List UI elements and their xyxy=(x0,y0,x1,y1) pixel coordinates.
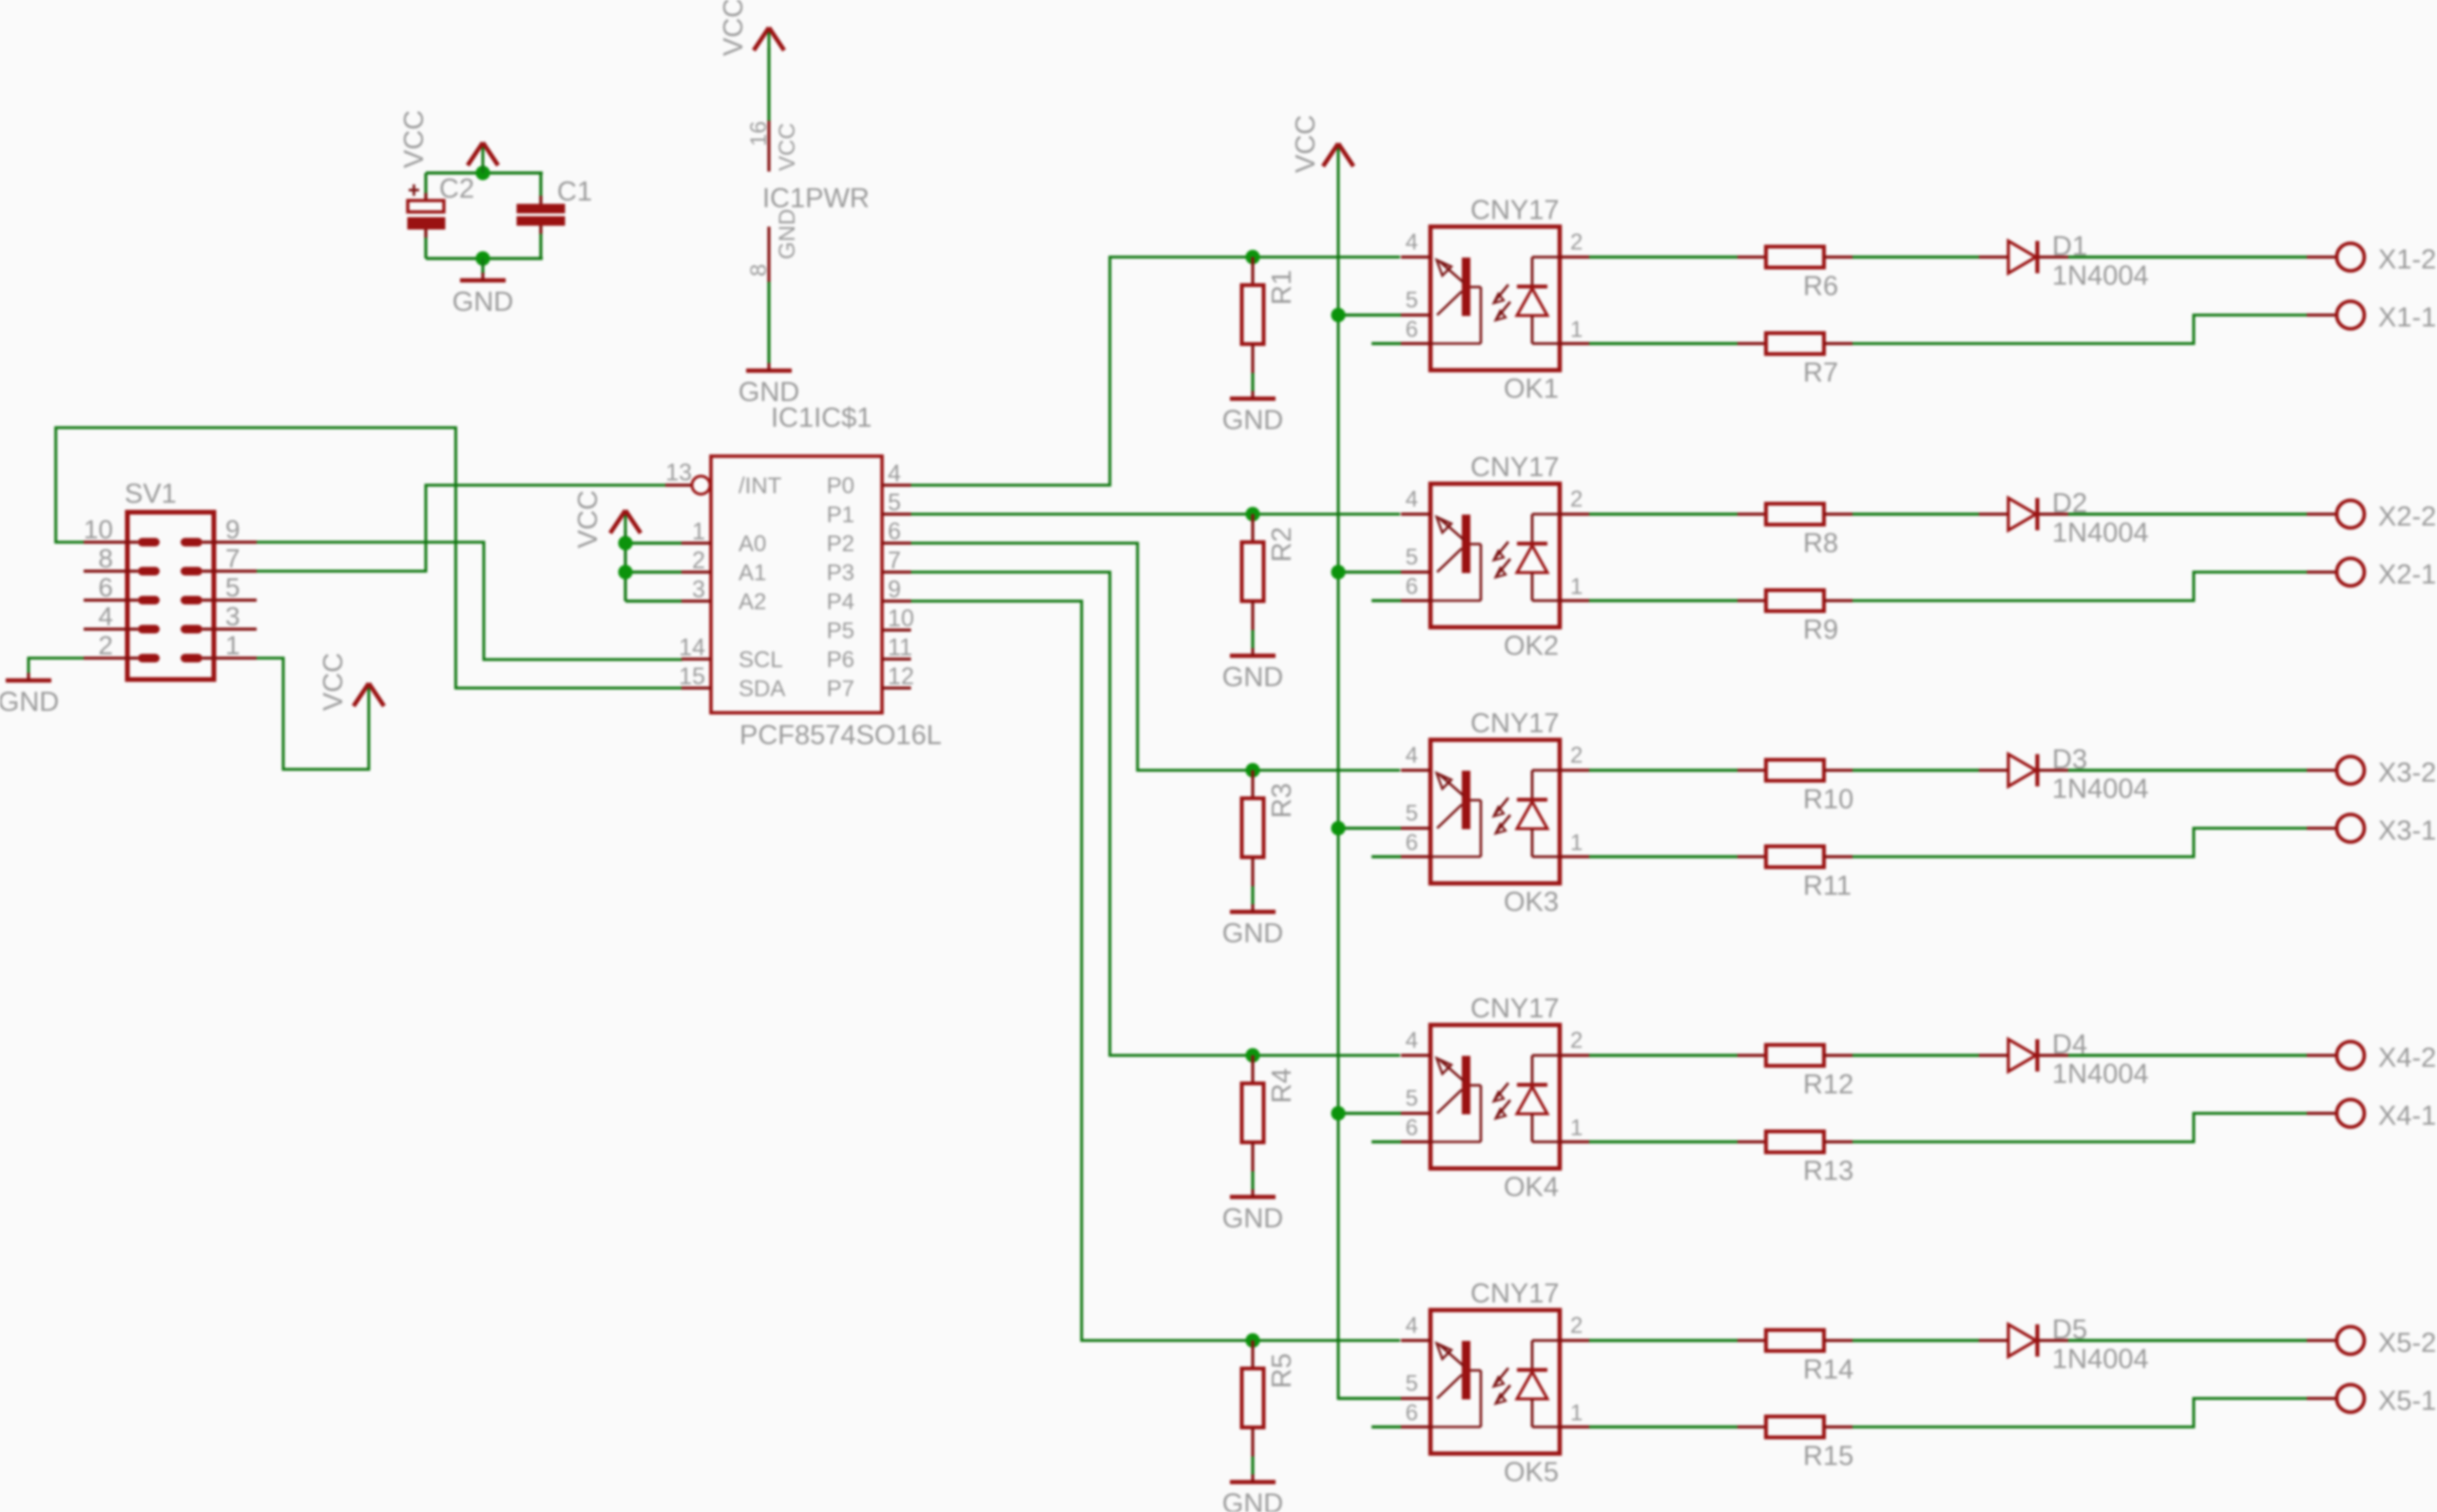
svg-text:P0: P0 xyxy=(827,473,854,499)
svg-text:R7: R7 xyxy=(1803,358,1838,389)
wire VCC to OK5 pin5 xyxy=(1338,1397,1401,1400)
resistor R12 xyxy=(1737,1045,1853,1101)
junction A0 xyxy=(618,536,632,550)
svg-text:R9: R9 xyxy=(1803,615,1838,645)
svg-text:12: 12 xyxy=(888,663,914,690)
pad X1-2 xyxy=(2307,243,2365,271)
svg-text:6: 6 xyxy=(1406,831,1418,856)
wire stub pin6 xyxy=(1372,342,1401,345)
resistor R14 xyxy=(1737,1330,1853,1386)
wire stub pin6 xyxy=(1372,855,1401,858)
wire stub pin6 xyxy=(1372,1140,1401,1143)
svg-text:R10: R10 xyxy=(1803,785,1853,815)
svg-text:4: 4 xyxy=(1406,1028,1418,1054)
svg-text:/INT: /INT xyxy=(739,473,782,499)
diode D3 1N4004 xyxy=(1979,755,2068,787)
svg-text:13: 13 xyxy=(665,460,692,487)
ground symbol GND xyxy=(1222,905,1283,949)
svg-text:R11: R11 xyxy=(1803,871,1852,902)
ground symbol GND xyxy=(1222,1475,1283,1512)
svg-text:1N4004: 1N4004 xyxy=(2052,261,2149,292)
ground symbol GND xyxy=(1222,392,1283,436)
svg-text:3: 3 xyxy=(692,577,705,603)
svg-text:P7: P7 xyxy=(827,677,854,702)
svg-text:R1: R1 xyxy=(1267,270,1297,305)
svg-text:1: 1 xyxy=(1570,574,1583,600)
resistor R4 xyxy=(1242,1056,1298,1172)
IC1 pin 12 P7 xyxy=(827,663,914,702)
svg-text:CNY17: CNY17 xyxy=(1470,994,1560,1024)
wire VCC to pin16 xyxy=(767,48,770,121)
svg-text:1N4004: 1N4004 xyxy=(2052,775,2149,805)
svg-text:GND: GND xyxy=(1222,919,1283,949)
svg-text:X5-1: X5-1 xyxy=(2378,1387,2436,1417)
resistor R8 xyxy=(1737,504,1852,559)
wire VCC to OK1 pin5 xyxy=(1338,314,1401,316)
pad X2-2 xyxy=(2307,501,2365,528)
svg-text:R8: R8 xyxy=(1803,528,1838,559)
svg-text:1N4004: 1N4004 xyxy=(2052,518,2149,548)
IC1 pin 11 P6 xyxy=(827,635,912,674)
svg-text:4: 4 xyxy=(1406,230,1418,256)
wire net SCL (SV1 pin9) xyxy=(257,543,682,660)
resistor R13 xyxy=(1737,1132,1853,1187)
power gate IC1PWR pin8 GND xyxy=(746,209,800,282)
resistor R6 xyxy=(1737,247,1852,302)
svg-text:GND: GND xyxy=(0,687,59,718)
svg-text:1N4004: 1N4004 xyxy=(2052,1345,2149,1375)
svg-text:X1-1: X1-1 xyxy=(2378,303,2436,334)
resistor R1 xyxy=(1242,258,1298,373)
pad X4-1 xyxy=(2307,1100,2365,1127)
svg-text:SDA: SDA xyxy=(739,677,785,702)
svg-text:SCL: SCL xyxy=(739,647,783,673)
wire OK3 pin2 to R10 xyxy=(1589,769,1737,772)
IC1 pin 3 A2 xyxy=(681,577,766,616)
optocoupler OK3 CNY17 xyxy=(1401,740,1589,884)
svg-text:P4: P4 xyxy=(827,589,854,615)
IC1 pin 1 A0 xyxy=(681,519,766,558)
svg-text:4: 4 xyxy=(98,602,113,631)
svg-text:X1-2: X1-2 xyxy=(2378,245,2436,276)
ground symbol GND xyxy=(739,363,799,408)
wire GND stem xyxy=(481,258,484,274)
junction R4 top xyxy=(1245,1048,1259,1062)
wire OK4 pin2 to R12 xyxy=(1589,1054,1737,1057)
wire R5 to GND xyxy=(1251,1457,1254,1475)
wire R6 to D1 xyxy=(1852,256,1979,258)
diode D5 1N4004 xyxy=(1979,1325,2068,1357)
svg-text:R2: R2 xyxy=(1267,526,1297,562)
svg-text:CNY17: CNY17 xyxy=(1470,452,1560,483)
pad X3-1 xyxy=(2307,814,2365,842)
svg-text:P5: P5 xyxy=(827,619,854,644)
svg-text:R3: R3 xyxy=(1267,783,1297,818)
junction A1 xyxy=(618,565,632,579)
SV1 pin 1 xyxy=(181,631,257,663)
IC1 pin 15 SDA xyxy=(679,663,785,702)
ground symbol GND xyxy=(0,673,59,718)
wire D4 to X4-2 xyxy=(2068,1054,2307,1057)
svg-text:OK3: OK3 xyxy=(1504,888,1559,918)
svg-text:2: 2 xyxy=(1570,1313,1583,1339)
wire pin8 to GND xyxy=(767,282,770,364)
junction R5 top xyxy=(1245,1333,1259,1348)
svg-text:P1: P1 xyxy=(827,503,854,528)
svg-text:11: 11 xyxy=(888,635,912,661)
wire OK5 pin2 to R14 xyxy=(1589,1339,1737,1342)
svg-text:6: 6 xyxy=(1406,1116,1418,1141)
svg-text:1: 1 xyxy=(1570,1116,1583,1141)
svg-text:3: 3 xyxy=(225,602,240,631)
wire R4 to GND xyxy=(1251,1172,1254,1190)
resistor R9 xyxy=(1737,590,1852,645)
svg-text:R15: R15 xyxy=(1803,1442,1853,1472)
svg-text:CNY17: CNY17 xyxy=(1470,709,1560,739)
svg-text:A0: A0 xyxy=(739,531,766,557)
svg-text:7: 7 xyxy=(225,544,240,573)
resistor R11 xyxy=(1737,847,1852,902)
wire net GND SV1 pin2 xyxy=(29,659,84,676)
svg-text:6: 6 xyxy=(98,573,113,603)
connector SV1 box xyxy=(127,512,214,679)
wire stub pin6 xyxy=(1372,599,1401,602)
wire net P1 to OK2 xyxy=(911,513,1401,516)
svg-text:OK2: OK2 xyxy=(1504,631,1559,661)
svg-text:IC1IC$1: IC1IC$1 xyxy=(771,403,872,433)
wire R9 to X2-1 xyxy=(1852,572,2307,601)
svg-text:GND: GND xyxy=(1222,1489,1283,1512)
svg-text:CNY17: CNY17 xyxy=(1470,196,1560,226)
resistor R7 xyxy=(1737,334,1852,389)
optocoupler OK4 CNY17 xyxy=(1401,1025,1589,1169)
power symbol VCC xyxy=(399,110,498,169)
svg-text:P2: P2 xyxy=(827,531,854,557)
wire R10 to D3 xyxy=(1852,769,1979,772)
junction R1 top xyxy=(1245,250,1259,264)
resistor R15 xyxy=(1737,1417,1853,1472)
junction node VCC xyxy=(475,165,489,180)
wire OK5 pin1 to R15 xyxy=(1589,1426,1737,1428)
svg-text:OK4: OK4 xyxy=(1504,1173,1559,1203)
wire A1 xyxy=(625,570,681,573)
diode D4 1N4004 xyxy=(1979,1040,2068,1072)
junction VCC rail at OK3 xyxy=(1331,821,1345,835)
svg-text:C2: C2 xyxy=(439,174,474,204)
svg-text:VCC: VCC xyxy=(573,490,604,548)
svg-text:8: 8 xyxy=(746,264,772,277)
wire R11 to X3-1 xyxy=(1852,829,2307,857)
optocoupler OK2 CNY17 xyxy=(1401,484,1589,627)
svg-text:10: 10 xyxy=(888,605,914,632)
wire R8 to D2 xyxy=(1852,512,1979,515)
svg-text:A1: A1 xyxy=(739,561,766,586)
svg-text:1: 1 xyxy=(692,519,705,545)
pad X5-1 xyxy=(2307,1385,2365,1412)
SV1 pin 8 xyxy=(84,544,160,576)
IC1 pin 6 P2 xyxy=(827,519,911,558)
junction VCC rail at OK2 xyxy=(1331,565,1345,579)
junction node GND xyxy=(475,251,489,265)
wire OK1 pin2 to R6 xyxy=(1589,256,1737,258)
svg-text:GND: GND xyxy=(1222,662,1283,693)
svg-text:GND: GND xyxy=(1222,406,1283,436)
wire net P2 to OK3 xyxy=(911,544,1401,771)
svg-text:PCF8574SO16L: PCF8574SO16L xyxy=(739,720,942,751)
power symbol VCC xyxy=(1291,115,1353,173)
SV1 pin 3 xyxy=(181,602,257,634)
svg-text:5: 5 xyxy=(1406,1371,1418,1397)
svg-text:X4-1: X4-1 xyxy=(2378,1101,2436,1132)
svg-text:2: 2 xyxy=(1570,1028,1583,1054)
pad X3-2 xyxy=(2307,756,2365,784)
svg-text:2: 2 xyxy=(1570,487,1583,512)
power symbol VCC xyxy=(318,653,384,711)
svg-text:GND: GND xyxy=(452,287,513,317)
svg-text:P6: P6 xyxy=(827,647,854,673)
svg-text:GND: GND xyxy=(1222,1204,1283,1234)
svg-text:4: 4 xyxy=(888,461,901,488)
pad X5-2 xyxy=(2307,1327,2365,1354)
pad X2-1 xyxy=(2307,559,2365,586)
pad X1-1 xyxy=(2307,301,2365,329)
SV1 pin 4 xyxy=(84,602,160,634)
optocoupler OK5 CNY17 xyxy=(1401,1311,1589,1454)
svg-text:4: 4 xyxy=(1406,743,1418,769)
svg-text:1: 1 xyxy=(1570,317,1583,343)
IC1 pin 7 P3 xyxy=(827,547,911,586)
svg-text:A2: A2 xyxy=(739,589,766,615)
svg-text:2: 2 xyxy=(1570,743,1583,769)
wire VCC top-left net xyxy=(426,171,543,174)
svg-text:VCC: VCC xyxy=(1291,115,1321,173)
SV1 pin 2 xyxy=(84,631,160,663)
svg-text:1: 1 xyxy=(225,631,240,660)
IC1 pin 9 P4 xyxy=(827,577,911,616)
resistor R5 xyxy=(1242,1341,1298,1457)
SV1 pin 5 xyxy=(181,573,257,605)
wire VCC to OK2 pin5 xyxy=(1338,570,1401,573)
wire OK1 pin1 to R7 xyxy=(1589,342,1737,345)
wire R13 to X4-1 xyxy=(1852,1114,2307,1142)
svg-text:6: 6 xyxy=(1406,574,1418,600)
optocoupler OK1 CNY17 xyxy=(1401,227,1589,371)
svg-text:C1: C1 xyxy=(557,177,592,207)
diode D1 1N4004 xyxy=(1979,241,2068,274)
svg-text:R14: R14 xyxy=(1803,1355,1853,1386)
wire OK3 pin1 to R11 xyxy=(1589,855,1737,858)
svg-text:5: 5 xyxy=(1406,801,1418,827)
svg-text:GND: GND xyxy=(775,209,800,259)
svg-text:X3-1: X3-1 xyxy=(2378,816,2436,847)
svg-text:R6: R6 xyxy=(1803,272,1838,302)
wire R1 to GND xyxy=(1251,373,1254,392)
svg-text:2: 2 xyxy=(98,631,113,660)
capacitor C2 (polarized) xyxy=(408,184,445,238)
wire net /INT to SV1 pin7 xyxy=(257,486,682,572)
wire A0 xyxy=(625,542,681,545)
svg-text:OK5: OK5 xyxy=(1504,1458,1559,1488)
pad X4-2 xyxy=(2307,1042,2365,1069)
resistor R2 xyxy=(1242,514,1298,630)
wire R3 to GND xyxy=(1251,887,1254,905)
wire net P4 to OK5 xyxy=(911,602,1401,1341)
wire OK4 pin1 to R13 xyxy=(1589,1140,1737,1143)
svg-text:VCC: VCC xyxy=(399,110,430,168)
svg-text:X5-2: X5-2 xyxy=(2378,1329,2436,1359)
svg-text:X3-2: X3-2 xyxy=(2378,758,2436,789)
wire net P3 to OK4 xyxy=(911,572,1401,1056)
svg-text:6: 6 xyxy=(1406,317,1418,343)
wire R2 to GND xyxy=(1251,630,1254,648)
wire net VCC SV1 pin1 xyxy=(257,659,369,770)
svg-text:5: 5 xyxy=(1406,545,1418,570)
IC1 pin 2 A1 xyxy=(681,547,766,586)
svg-text:6: 6 xyxy=(888,519,901,545)
svg-text:5: 5 xyxy=(888,489,901,516)
svg-text:VCC: VCC xyxy=(318,653,349,711)
SV1 pin 10 xyxy=(84,515,160,547)
svg-text:4: 4 xyxy=(1406,487,1418,512)
ground symbol GND xyxy=(1222,1190,1283,1234)
ground symbol GND xyxy=(1222,648,1283,693)
svg-text:R4: R4 xyxy=(1267,1068,1297,1103)
svg-text:8: 8 xyxy=(98,544,113,573)
junction R2 top xyxy=(1245,507,1259,521)
wire R7 to X1-1 xyxy=(1852,316,2307,344)
wire R15 to X5-1 xyxy=(1852,1399,2307,1427)
diode D2 1N4004 xyxy=(1979,498,2068,530)
svg-text:P3: P3 xyxy=(827,561,854,586)
svg-text:16: 16 xyxy=(746,121,772,146)
SV1 pin 6 xyxy=(84,573,160,605)
svg-text:5: 5 xyxy=(1406,1086,1418,1112)
svg-text:9: 9 xyxy=(225,515,240,545)
wire D3 to X3-2 xyxy=(2068,769,2307,772)
resistor R10 xyxy=(1737,760,1853,815)
ground symbol GND xyxy=(452,273,513,317)
power symbol VCC xyxy=(719,0,784,56)
svg-text:9: 9 xyxy=(888,577,901,603)
svg-text:5: 5 xyxy=(225,573,240,603)
wire D5 to X5-2 xyxy=(2068,1339,2307,1342)
wire OK2 pin1 to R9 xyxy=(1589,599,1737,602)
svg-text:4: 4 xyxy=(1406,1313,1418,1339)
svg-text:14: 14 xyxy=(679,635,705,661)
svg-text:10: 10 xyxy=(84,515,113,545)
svg-text:X2-2: X2-2 xyxy=(2378,502,2436,532)
IC1 pin 13 /INT xyxy=(665,460,782,500)
wire A2 xyxy=(625,600,681,603)
power symbol VCC xyxy=(573,490,641,548)
svg-text:5: 5 xyxy=(1406,288,1418,314)
wire OK2 pin2 to R8 xyxy=(1589,512,1737,515)
svg-text:R5: R5 xyxy=(1267,1353,1297,1388)
junction VCC rail at OK1 xyxy=(1331,308,1345,322)
svg-text:1: 1 xyxy=(1570,831,1583,856)
VCC rail for A0/A1/A2 xyxy=(624,530,626,602)
svg-text:1: 1 xyxy=(1570,1401,1583,1426)
svg-text:2: 2 xyxy=(692,547,705,574)
junction R3 top xyxy=(1245,763,1259,777)
svg-text:R13: R13 xyxy=(1803,1157,1853,1187)
wire net SDA (SV1 pin10 loop) xyxy=(56,428,682,688)
svg-text:CNY17: CNY17 xyxy=(1470,1279,1560,1310)
IC1 pin 5 P1 xyxy=(827,489,911,528)
wire D1 to X1-2 xyxy=(2068,256,2307,258)
svg-text:SV1: SV1 xyxy=(125,479,177,509)
wire R12 to D4 xyxy=(1852,1054,1979,1057)
IC U1 PCF8574 box xyxy=(711,456,882,713)
wire D2 to X2-2 xyxy=(2068,512,2307,515)
svg-text:X4-2: X4-2 xyxy=(2378,1043,2436,1074)
svg-text:VCC: VCC xyxy=(775,123,800,171)
wire VCC rail vertical xyxy=(1338,162,1401,1399)
wire VCC to OK3 pin5 xyxy=(1338,827,1401,830)
svg-text:VCC: VCC xyxy=(719,0,749,56)
svg-text:R12: R12 xyxy=(1803,1070,1853,1101)
capacitor C1 xyxy=(517,196,565,234)
svg-text:2: 2 xyxy=(1570,230,1583,256)
svg-text:7: 7 xyxy=(888,547,901,574)
resistor R3 xyxy=(1242,771,1298,887)
svg-text:X2-1: X2-1 xyxy=(2378,560,2436,590)
svg-text:15: 15 xyxy=(679,663,705,690)
wire net P0 to OK1 xyxy=(911,258,1401,486)
junction VCC rail at OK4 xyxy=(1331,1106,1345,1120)
SV1 pin 9 xyxy=(181,515,257,547)
wire VCC stem xyxy=(481,165,484,173)
svg-text:1N4004: 1N4004 xyxy=(2052,1060,2149,1090)
IC1 pin 4 P0 xyxy=(827,461,911,500)
wire R14 to D5 xyxy=(1852,1339,1979,1342)
IC1 pin 10 P5 xyxy=(827,605,914,644)
wire VCC to OK4 pin5 xyxy=(1338,1112,1401,1115)
svg-text:OK1: OK1 xyxy=(1504,374,1559,405)
wire stub pin6 xyxy=(1372,1426,1401,1428)
SV1 pin 7 xyxy=(181,544,257,576)
svg-text:6: 6 xyxy=(1406,1401,1418,1426)
IC1 pin 14 SCL xyxy=(679,635,783,674)
